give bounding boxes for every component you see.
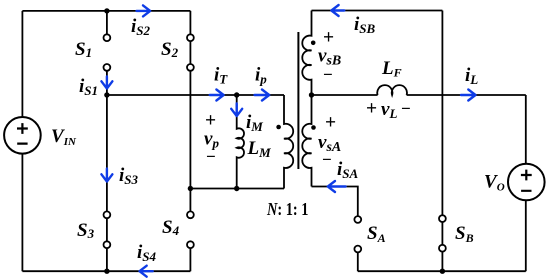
svg-text:S2: S2 — [161, 39, 179, 60]
transformer secondary winding vsA — [302, 95, 311, 187]
wire left rail — [21, 11, 23, 271]
current arrow iS2 — [137, 5, 151, 16]
svg-text:−: − — [206, 147, 216, 166]
svg-text:VO: VO — [484, 172, 505, 194]
svg-text:S3: S3 — [77, 220, 95, 241]
svg-text:iS2: iS2 — [131, 16, 151, 38]
source VIN — [4, 117, 41, 154]
svg-text:+: + — [325, 113, 336, 134]
wire S1-S3 branch (S1 open, S3 closed) — [106, 11, 108, 271]
svg-text:+: + — [366, 99, 377, 120]
transformer secondary winding vsB — [302, 11, 311, 96]
switch S2 terminals — [187, 34, 194, 41]
wire primary top rail (node A) — [107, 94, 284, 96]
current arrow ip — [255, 90, 270, 101]
current arrow iSB — [331, 5, 344, 16]
current arrow iSA — [328, 181, 346, 192]
svg-text:iM: iM — [246, 112, 263, 134]
current arrow iM — [231, 103, 242, 116]
svg-text:ip: ip — [255, 65, 267, 87]
svg-text:iSB: iSB — [354, 14, 376, 36]
wire vsA bottom to SA — [312, 187, 358, 272]
polarity dot vsB — [311, 41, 316, 46]
wire primary bottom rail (node B) — [190, 188, 284, 190]
junction node A / S1S3 — [104, 92, 109, 97]
junction center tap — [309, 92, 314, 97]
wire top-right rail (iSB) — [312, 10, 443, 12]
junction bottom rail / S3 — [104, 269, 109, 274]
switch SA terminals — [354, 216, 361, 223]
svg-text:iT: iT — [214, 65, 228, 87]
switch S4 terminals — [187, 211, 194, 218]
wire bottom-right rail — [358, 270, 526, 272]
wire right rail — [525, 95, 527, 271]
switch SB terminals — [439, 215, 446, 222]
svg-text:S4: S4 — [162, 217, 180, 238]
transformer primary winding — [284, 95, 293, 189]
switch S3 terminals — [104, 211, 111, 218]
source VO — [508, 164, 545, 201]
svg-text:−: − — [401, 99, 411, 118]
current arrow iS3 — [101, 169, 112, 182]
current arrow iT — [210, 90, 224, 101]
svg-text:SB: SB — [455, 223, 474, 245]
svg-text:S1: S1 — [75, 39, 92, 60]
junction node B / S2S4 — [188, 186, 193, 191]
wire center-tap to LF to right rail — [312, 94, 526, 96]
svg-text:iS1: iS1 — [79, 76, 98, 98]
junction LM top — [234, 92, 239, 97]
wire bottom-left rail — [22, 270, 190, 272]
junction top rail / S1 — [104, 8, 109, 13]
inductor LM (magnetizing) — [237, 95, 244, 189]
svg-text:iS4: iS4 — [137, 242, 157, 264]
svg-text:iSA: iSA — [337, 159, 359, 181]
svg-text:−: − — [323, 65, 333, 84]
junction bottom rail / SB — [440, 269, 445, 274]
wire SB branch (SB closed) — [441, 11, 443, 272]
switch S1 terminals — [104, 34, 111, 41]
wire S2-S4 branch (S2 closed, S4 open) — [189, 11, 191, 271]
current arrow iS1 — [101, 77, 112, 89]
current arrow iS4 — [140, 266, 153, 277]
svg-text:LM: LM — [247, 138, 272, 160]
svg-text:iL: iL — [465, 65, 478, 87]
svg-text:iS3: iS3 — [119, 165, 139, 187]
svg-text:N: 1: 1: N: 1: 1 — [266, 199, 308, 219]
current arrow iL — [461, 90, 476, 101]
svg-text:vL: vL — [381, 99, 397, 121]
svg-text:LF: LF — [381, 58, 402, 80]
svg-text:SA: SA — [367, 223, 386, 245]
svg-text:−: − — [322, 150, 332, 169]
inductor LF — [377, 85, 407, 95]
wire top-left rail — [22, 10, 190, 12]
transformer core — [297, 32, 299, 169]
junction LM bottom — [234, 186, 239, 191]
polarity dot primary — [276, 125, 281, 130]
polarity dot vsA — [311, 125, 316, 130]
svg-text:VIN: VIN — [51, 126, 77, 148]
